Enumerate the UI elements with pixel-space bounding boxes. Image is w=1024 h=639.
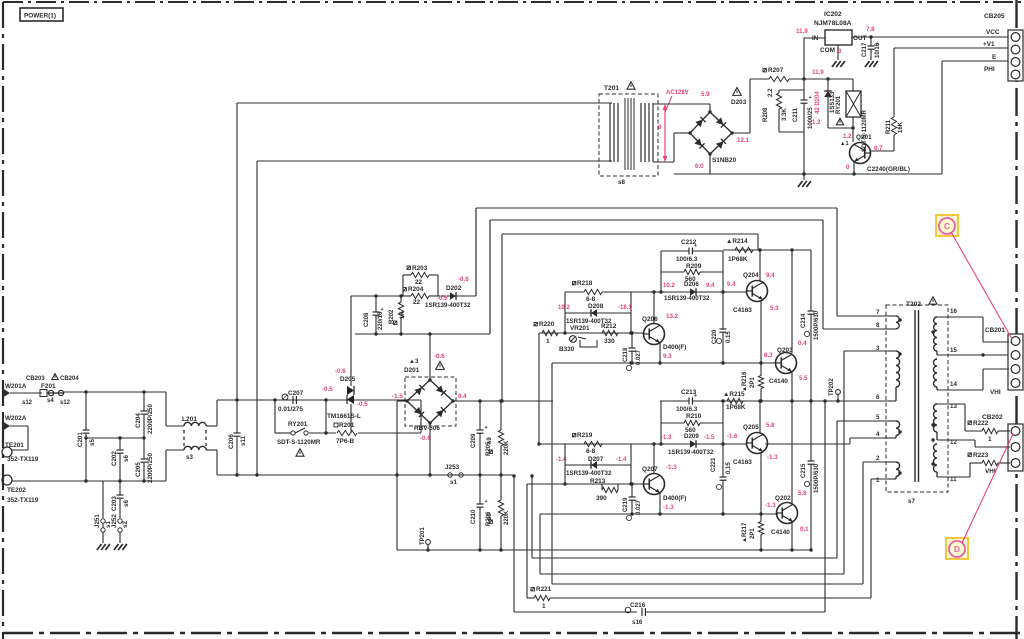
svg-text:▲R214: ▲R214 xyxy=(726,238,748,245)
svg-text:1: 1 xyxy=(876,477,880,484)
svg-text:s3: s3 xyxy=(186,454,193,461)
loop2 wire up xyxy=(489,220,491,334)
svg-text:11.9: 11.9 xyxy=(796,28,808,35)
capacitor C205 2200P/250 xyxy=(143,438,145,459)
svg-text:7.8: 7.8 xyxy=(866,26,875,33)
svg-text:D206: D206 xyxy=(684,281,699,288)
resistor R218 6-8 xyxy=(573,282,576,285)
capacitor C202 xyxy=(119,438,121,450)
svg-text:10/16: 10/16 xyxy=(875,42,881,58)
svg-text:C218: C218 xyxy=(623,347,629,362)
svg-text:C206: C206 xyxy=(228,434,235,449)
capacitor C208 220/16 xyxy=(375,296,377,312)
svg-text:C2240(GR/BL): C2240(GR/BL) xyxy=(867,166,910,173)
svg-text:s4: s4 xyxy=(47,398,54,404)
svg-text:C202: C202 xyxy=(111,451,118,466)
svg-text:R220: R220 xyxy=(539,321,555,328)
svg-text:6-8: 6-8 xyxy=(586,296,596,303)
svg-text:D400(F): D400(F) xyxy=(663,495,686,502)
mains bus xyxy=(217,474,513,476)
svg-text:s12: s12 xyxy=(22,400,33,406)
resistor R207 2.2 xyxy=(750,78,769,80)
svg-text:1: 1 xyxy=(988,436,992,443)
svg-text:2200P/250: 2200P/250 xyxy=(147,404,154,434)
svg-text:-1.5: -1.5 xyxy=(392,393,403,400)
page border dash-dot left xyxy=(2,2,4,639)
svg-text:PHI: PHI xyxy=(984,66,995,73)
svg-text:R209: R209 xyxy=(686,263,702,270)
svg-text:42 D204: 42 D204 xyxy=(815,91,821,114)
svg-text:C201: C201 xyxy=(77,432,84,447)
svg-text:R202: R202 xyxy=(389,309,395,324)
E wire from rail xyxy=(941,61,943,174)
wire444 row xyxy=(631,443,747,445)
svg-text:VR201: VR201 xyxy=(570,325,590,332)
svg-text:1: 1 xyxy=(546,338,550,345)
ground symbol main rail xyxy=(803,174,805,180)
T202 secondary coil 12-11 xyxy=(934,444,938,472)
resistor R202 1K xyxy=(400,296,402,302)
Q203 base row wire363 xyxy=(552,362,776,364)
svg-text:C211: C211 xyxy=(793,107,799,122)
svg-text:16K: 16K xyxy=(898,121,904,133)
svg-text:D203: D203 xyxy=(731,99,747,106)
svg-text:6.0: 6.0 xyxy=(695,163,704,170)
T202 primary coil 3-6 xyxy=(896,351,900,387)
IC202 COM ground xyxy=(837,45,839,60)
svg-text:D: D xyxy=(954,544,960,554)
svg-text:R212: R212 xyxy=(601,323,617,330)
T201 core xyxy=(624,98,626,170)
svg-text:D400(F): D400(F) xyxy=(663,344,686,351)
svg-text:TE201: TE201 xyxy=(5,442,24,449)
svg-text:R213: R213 xyxy=(590,478,606,485)
wire T201 sec top to bridge xyxy=(653,103,710,105)
svg-text:RY201: RY201 xyxy=(288,421,308,428)
svg-text:C219: C219 xyxy=(623,497,629,512)
resistor R223 xyxy=(969,463,971,477)
bus 334 wire xyxy=(355,333,490,335)
svg-text:TE202: TE202 xyxy=(7,487,26,494)
bottom loop pin5 xyxy=(531,476,533,558)
svg-text:1P68K: 1P68K xyxy=(726,404,746,411)
svg-text:2.2: 2.2 xyxy=(767,88,774,97)
svg-text:▲R217: ▲R217 xyxy=(742,522,748,543)
T202 primary coil 5-4 xyxy=(896,421,900,435)
Q201 emitter to rail xyxy=(853,162,855,174)
wire to choke top xyxy=(165,392,167,426)
capacitor C220 0.15 xyxy=(722,292,724,329)
resistor R205 220K xyxy=(500,401,502,430)
C213 R210 block verticals xyxy=(660,401,662,444)
bridge D201 RBV-606 xyxy=(430,380,453,401)
svg-text:1P68K: 1P68K xyxy=(728,256,748,263)
capacitor C203 xyxy=(119,481,121,495)
Q206 emitter wire xyxy=(659,343,661,363)
svg-text:D208: D208 xyxy=(588,303,604,310)
svg-text:+: + xyxy=(809,95,812,101)
svg-text:C216: C216 xyxy=(630,602,646,609)
svg-text:D205: D205 xyxy=(340,376,356,383)
Q207 collector wire xyxy=(653,444,655,474)
svg-text:C209: C209 xyxy=(471,433,477,448)
CB202 middle wire xyxy=(975,446,1010,448)
svg-text:AC128V: AC128V xyxy=(666,90,689,96)
Q206 collector wire xyxy=(653,292,655,324)
title box POWER(1) xyxy=(20,8,63,21)
svg-text:0.1: 0.1 xyxy=(800,526,809,533)
svg-text:▲R215: ▲R215 xyxy=(723,391,745,398)
bridge bottom corner wire xyxy=(429,423,431,475)
svg-text:13.2: 13.2 xyxy=(666,313,679,320)
svg-text:+: + xyxy=(694,393,697,399)
svg-text:R210: R210 xyxy=(686,413,702,420)
svg-text:R222: R222 xyxy=(973,420,989,427)
bottom ground bus xyxy=(397,549,811,551)
capacitor C204 2200P/250 xyxy=(143,392,145,411)
svg-text:1SR139-400T32: 1SR139-400T32 xyxy=(566,470,612,477)
svg-text:5.3: 5.3 xyxy=(770,305,779,312)
svg-text:C208: C208 xyxy=(364,312,370,327)
feedback bus vertical R220 xyxy=(538,333,540,444)
svg-text:D201: D201 xyxy=(404,367,420,374)
svg-text:R204: R204 xyxy=(408,286,424,293)
resistor R201 7P6-B xyxy=(334,423,338,427)
svg-text:R203: R203 xyxy=(412,265,428,272)
capacitor C206 s11 xyxy=(236,400,238,433)
relay mid vertical xyxy=(325,400,327,433)
svg-text:6-8: 6-8 xyxy=(586,448,596,455)
capacitor C209 s9 xyxy=(479,401,481,430)
terminal W202A xyxy=(2,421,10,431)
terminal W201A xyxy=(2,388,10,398)
capacitor C219 0.027 xyxy=(631,484,633,497)
svg-text:C220: C220 xyxy=(712,329,718,344)
svg-text:2200P/250: 2200P/250 xyxy=(147,453,154,483)
svg-text:Q201: Q201 xyxy=(856,134,872,141)
svg-text:-1.4: -1.4 xyxy=(616,457,627,463)
svg-text:8.3: 8.3 xyxy=(764,352,773,359)
relay circuit frame xyxy=(274,400,276,433)
svg-text:2: 2 xyxy=(876,455,880,462)
output rail pin6 wire401 xyxy=(660,400,888,402)
svg-text:22: 22 xyxy=(415,279,423,286)
svg-text:J253: J253 xyxy=(445,464,460,471)
bridge minus to ground rail xyxy=(709,154,711,174)
svg-text:330: 330 xyxy=(604,338,615,345)
R220 base feed row xyxy=(539,332,643,334)
svg-text:1SR139-400T32: 1SR139-400T32 xyxy=(664,295,710,302)
svg-text:0.027: 0.027 xyxy=(636,499,642,515)
svg-text:s6: s6 xyxy=(123,455,130,462)
C212 R209 block verticals xyxy=(660,251,662,292)
T202 secondary coil 13-12 xyxy=(934,404,938,432)
svg-text:Q205: Q205 xyxy=(743,424,759,431)
svg-text:11.9: 11.9 xyxy=(812,69,824,76)
svg-text:▲1: ▲1 xyxy=(840,141,849,147)
relay feed wire xyxy=(217,399,421,401)
svg-text:R218: R218 xyxy=(577,280,593,287)
svg-text:CB204: CB204 xyxy=(60,376,79,382)
svg-text:2P1: 2P1 xyxy=(750,377,756,388)
svg-text:14: 14 xyxy=(950,381,957,388)
svg-text:R219: R219 xyxy=(577,432,593,439)
wire T201 primary top xyxy=(236,103,238,400)
T202 core xyxy=(914,310,916,482)
svg-text:7P6-B: 7P6-B xyxy=(336,438,354,445)
svg-text:F201: F201 xyxy=(41,383,56,390)
svg-text:+: + xyxy=(694,243,697,249)
svg-text:B330: B330 xyxy=(559,346,575,353)
wire bus334 down to bridge D201 xyxy=(429,334,431,380)
svg-text:s8: s8 xyxy=(618,179,625,186)
jumper J251 xyxy=(102,481,104,518)
svg-text:-0.6: -0.6 xyxy=(434,353,445,360)
C216 line xyxy=(514,611,637,613)
resistor R204 22 xyxy=(403,288,406,291)
capacitor C215 1500P/630 xyxy=(810,401,812,461)
svg-text:-18.1: -18.1 xyxy=(618,305,632,311)
svg-text:8: 8 xyxy=(876,322,880,329)
svg-text:Q202: Q202 xyxy=(775,495,791,502)
wire relay coil to Q201 collector xyxy=(852,117,854,142)
svg-text:C214: C214 xyxy=(801,313,807,328)
svg-text:+: + xyxy=(485,425,488,431)
svg-text:C221: C221 xyxy=(711,457,717,472)
Q207 emitter wire xyxy=(659,493,661,514)
R208 C211 parallel pair xyxy=(803,79,805,90)
svg-text:-1.6: -1.6 xyxy=(727,434,738,440)
svg-text:220K: 220K xyxy=(504,440,510,455)
svg-text:+V1: +V1 xyxy=(983,41,995,48)
pin4 feedback wire xyxy=(539,443,631,445)
bridge D201 dashed box xyxy=(405,377,456,426)
svg-text:D209: D209 xyxy=(684,433,699,440)
Q202 base row wire514 xyxy=(540,513,778,515)
T202 primary coil 2-1 xyxy=(896,462,900,476)
svg-text:1SR139-400T32: 1SR139-400T32 xyxy=(425,302,471,309)
svg-text:C207: C207 xyxy=(288,390,304,397)
wire after fuse xyxy=(64,391,166,393)
svg-text:E: E xyxy=(992,54,997,61)
relay coil RY201 SDT-S-1120MR xyxy=(852,79,854,91)
svg-text:15: 15 xyxy=(950,347,957,354)
svg-text:TM1661S-L: TM1661S-L xyxy=(327,413,361,420)
svg-text:6: 6 xyxy=(876,394,880,401)
svg-text:-0.5: -0.5 xyxy=(322,386,333,393)
bus476 to C216 line vertical xyxy=(513,476,515,612)
svg-text:1K: 1K xyxy=(400,311,406,319)
svg-text:7: 7 xyxy=(876,309,880,316)
Q204 collector wire xyxy=(759,250,761,281)
svg-text:CB203: CB203 xyxy=(26,376,45,382)
svg-text:C204: C204 xyxy=(135,413,142,428)
svg-text:-1.3: -1.3 xyxy=(767,454,778,461)
terminal TE201 352-TX119 xyxy=(2,447,12,457)
svg-text:11: 11 xyxy=(950,476,957,483)
IC202 out wire to VCC xyxy=(852,36,1010,38)
svg-text:-1.5: -1.5 xyxy=(704,435,715,441)
svg-text:R211: R211 xyxy=(886,119,892,134)
page border dash-dot right xyxy=(1015,0,1017,639)
svg-text:0: 0 xyxy=(658,124,662,131)
svg-text:R201: R201 xyxy=(339,422,355,429)
capacitor C221 0.15 xyxy=(722,444,724,477)
Q204 emitter wire xyxy=(760,300,762,363)
svg-text:1: 1 xyxy=(542,603,546,610)
resistor R211 16K xyxy=(894,47,1010,49)
svg-text:-1.3: -1.3 xyxy=(666,464,677,471)
bridge left corner wire xyxy=(397,400,407,402)
svg-text:-1.3: -1.3 xyxy=(663,504,674,511)
svg-text:IC202: IC202 xyxy=(824,11,842,18)
svg-text:352-TX119: 352-TX119 xyxy=(7,497,39,504)
marker C xyxy=(936,215,958,236)
svg-text:5.8: 5.8 xyxy=(766,422,775,429)
svg-text:0.4: 0.4 xyxy=(798,340,807,347)
svg-text:16: 16 xyxy=(950,308,957,315)
svg-text:10.2: 10.2 xyxy=(663,283,675,289)
svg-text:0.4: 0.4 xyxy=(458,393,467,400)
svg-text:1000/25: 1000/25 xyxy=(808,107,814,129)
Q205 emitter wire xyxy=(760,452,762,514)
wire choke bottom out xyxy=(206,449,217,451)
svg-text:Q207: Q207 xyxy=(642,466,658,473)
snubber column C214 C215 xyxy=(810,250,812,311)
svg-text:5: 5 xyxy=(876,414,880,421)
svg-text:C215: C215 xyxy=(801,463,807,478)
svg-text:1.2: 1.2 xyxy=(843,134,852,140)
ground J251 xyxy=(97,544,102,550)
svg-text:0.01/275: 0.01/275 xyxy=(278,406,303,413)
resistor R222 1 xyxy=(968,421,971,424)
resistor R203 22 xyxy=(402,275,404,296)
svg-text:s5: s5 xyxy=(89,439,96,446)
svg-text:RBV-606: RBV-606 xyxy=(414,425,440,432)
svg-text:J252: J252 xyxy=(111,514,118,528)
capacitor C217 10/16 xyxy=(870,37,872,46)
svg-text:C210: C210 xyxy=(471,509,477,524)
diode D204 1SS133 xyxy=(827,79,829,91)
svg-text:CB205: CB205 xyxy=(984,13,1005,20)
svg-text:Q206: Q206 xyxy=(642,316,658,323)
svg-text:-0.6: -0.6 xyxy=(458,276,469,283)
svg-text:9.3: 9.3 xyxy=(663,353,672,360)
page border dash-dot top xyxy=(3,1,1024,3)
svg-text:▲R216: ▲R216 xyxy=(742,371,748,392)
Q203 collector wire xyxy=(791,250,793,353)
svg-text:3: 3 xyxy=(876,345,880,352)
svg-text:▲3: ▲3 xyxy=(409,359,419,365)
svg-text:5.9: 5.9 xyxy=(701,91,710,98)
loop1 wire to pin7 xyxy=(475,208,477,296)
diode D202 1SR139-400T32 xyxy=(438,295,450,297)
svg-text:RY201: RY201 xyxy=(836,95,842,114)
svg-text:T201: T201 xyxy=(604,85,619,92)
T202 secondary coil 14-13 xyxy=(934,359,938,387)
loop3 wire to row250 xyxy=(501,234,503,401)
svg-text:s16: s16 xyxy=(632,619,643,626)
bottom loop pin2 xyxy=(552,583,863,585)
Q203 emitter to output rail and Q202 collector xyxy=(791,372,793,503)
svg-text:D202: D202 xyxy=(446,285,462,292)
svg-text:-0.5: -0.5 xyxy=(357,401,368,408)
row250 top wire xyxy=(723,249,811,251)
svg-text:s2: s2 xyxy=(122,521,129,528)
svg-text:12.1: 12.1 xyxy=(737,137,750,144)
bus 296 wire xyxy=(351,295,403,297)
svg-text:220/16: 220/16 xyxy=(378,311,384,330)
svg-text:R207: R207 xyxy=(768,67,784,74)
svg-text:5.8: 5.8 xyxy=(798,490,807,497)
loop1 wire up xyxy=(475,208,477,296)
terminal TE202 352-TX119 xyxy=(2,475,12,485)
svg-text:C217: C217 xyxy=(862,42,868,57)
svg-text:-1.3: -1.3 xyxy=(765,502,776,509)
bottom loop pin3 xyxy=(540,573,844,575)
svg-text:-1.3: -1.3 xyxy=(661,435,672,441)
Q202 emitter wire xyxy=(791,522,793,550)
svg-text:POWER(1): POWER(1) xyxy=(24,13,56,20)
resistor R219 6-8 xyxy=(573,434,576,437)
bridge output to R207 line xyxy=(732,132,750,134)
IC202 input wire xyxy=(803,38,805,79)
wire T201 primary return xyxy=(256,161,258,475)
wire mains neutral xyxy=(12,480,166,482)
choke core dashes xyxy=(183,430,185,444)
svg-text:9.4: 9.4 xyxy=(727,282,736,288)
svg-text:SDT-S-1120MR: SDT-S-1120MR xyxy=(277,439,321,446)
R218 D208 block verticals xyxy=(564,292,566,333)
svg-text:R221: R221 xyxy=(536,586,552,593)
wire W202A to TE201 xyxy=(10,425,28,427)
svg-text:1500P/630: 1500P/630 xyxy=(814,463,820,493)
wire choke bottom left xyxy=(166,449,184,451)
svg-text:S1NB20: S1NB20 xyxy=(712,157,737,164)
svg-text:W201A: W201A xyxy=(5,383,27,390)
svg-text:TP202: TP202 xyxy=(829,378,835,396)
transformer T202 dashed box xyxy=(886,305,948,492)
svg-text:s12: s12 xyxy=(60,400,71,406)
ground J252 xyxy=(114,544,119,550)
marker D xyxy=(946,538,968,559)
svg-text:220K: 220K xyxy=(504,510,510,525)
T202 secondary coil 16-15 xyxy=(934,317,937,351)
loop2 wire to pin8 xyxy=(489,220,491,334)
svg-text:1500P/630: 1500P/630 xyxy=(814,310,820,340)
svg-text:OUT: OUT xyxy=(853,35,867,42)
ground rail top area xyxy=(674,173,710,175)
svg-text:R223: R223 xyxy=(973,452,989,459)
Q205 collector wire xyxy=(759,401,761,433)
svg-text:5.5: 5.5 xyxy=(799,375,808,382)
svg-text:3: 3 xyxy=(838,48,842,55)
wire292 row xyxy=(631,291,747,293)
svg-text:Q204: Q204 xyxy=(743,272,759,279)
wire D205 to bus296 xyxy=(350,296,352,378)
R219 D207 block verticals xyxy=(564,444,566,484)
transformer T201 dashed box xyxy=(599,94,658,176)
svg-text:C4140: C4140 xyxy=(771,529,790,536)
wire choke top out xyxy=(206,425,217,427)
svg-text:4: 4 xyxy=(876,431,880,438)
capacitor C210 s9 xyxy=(479,475,481,504)
svg-text:J251: J251 xyxy=(94,514,101,528)
svg-text:100/6.3: 100/6.3 xyxy=(676,256,698,263)
svg-text:9.4: 9.4 xyxy=(766,272,775,279)
capacitor C201 xyxy=(85,392,87,430)
T201 right winding xyxy=(640,103,642,162)
